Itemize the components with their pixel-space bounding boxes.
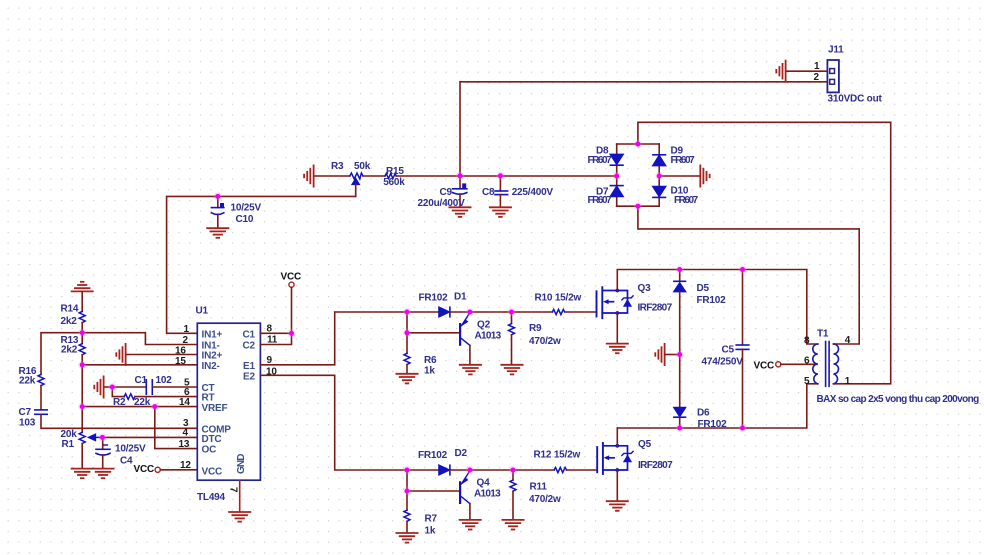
VCC circle above pin8	[289, 282, 294, 287]
wire VCC down to C1/C2 node	[291, 287, 293, 333]
svg-text:E1: E1	[243, 361, 255, 372]
svg-text:11: 11	[267, 334, 278, 345]
wire bridge top to T1 pin1 (right loop)	[638, 122, 891, 384]
ground under C10	[207, 228, 228, 238]
capacitor C9 220u/400V	[453, 176, 467, 207]
ground under C8	[490, 207, 511, 217]
svg-text:IN1+: IN1+	[202, 329, 223, 340]
node D6 bottom rail	[676, 424, 684, 432]
wire Q4 base row	[407, 490, 459, 492]
wire D2 cathode to node	[450, 469, 470, 471]
svg-text:Q3: Q3	[638, 283, 652, 294]
wire wiper row to IC pin4 DTC	[102, 436, 197, 438]
svg-text:IRF2807: IRF2807	[638, 303, 673, 314]
svg-text:Q5: Q5	[638, 439, 652, 450]
svg-text:FR102: FR102	[418, 450, 448, 461]
svg-text:8: 8	[804, 336, 810, 347]
wire R9 node to R10	[512, 311, 553, 313]
svg-text:474/250V: 474/250V	[702, 357, 744, 368]
svg-text:R14: R14	[61, 304, 79, 315]
wire VREF row	[82, 406, 197, 408]
svg-text:1k: 1k	[425, 526, 436, 537]
wire Q4 collector to ground	[469, 504, 471, 520]
wire R11 node to R12	[513, 469, 554, 471]
svg-text:FR102: FR102	[698, 419, 728, 430]
ground at IC pin16 (rotated)	[116, 344, 125, 365]
node VREF row mid	[151, 403, 159, 411]
wire Q5 drain to bottom rail	[616, 428, 618, 446]
ground under Q5	[607, 501, 628, 511]
svg-text:C2: C2	[243, 341, 256, 352]
wire ground to mid node	[665, 354, 679, 356]
ground under Q2	[460, 365, 481, 375]
wire D2 anode lead	[407, 469, 439, 471]
diode D2 FR102	[439, 465, 450, 475]
svg-text:C1: C1	[135, 375, 148, 386]
ground left of R3 (rotated)	[304, 165, 314, 186]
wire Q3 source to ground	[616, 313, 618, 343]
wire bridge right node to ground	[659, 175, 700, 177]
node C5 top rail	[739, 266, 747, 274]
wire Q3 drain to top rail / rail to T1 pin8	[617, 270, 818, 345]
node VREF row left	[78, 403, 86, 411]
node bridge top	[634, 140, 642, 148]
svg-text:IRF2807: IRF2807	[638, 460, 673, 471]
wire IC pin10 E2 to bottom driver row	[260, 375, 407, 470]
wire IC pin8 C1 to node	[260, 332, 291, 334]
wire ground to IC pin16	[126, 354, 197, 356]
svg-text:FR607: FR607	[588, 195, 613, 206]
svg-text:Q4: Q4	[477, 477, 491, 488]
ground under Q3	[607, 344, 628, 354]
wire D1 cathode to node	[450, 311, 470, 313]
node D5/D6 mid	[676, 351, 684, 359]
MOSFET Q3 IRF2807	[597, 287, 634, 318]
potentiometer R1 20k	[79, 432, 85, 443]
node bridge bottom	[634, 202, 642, 210]
svg-text:102: 102	[156, 375, 173, 386]
transistor Q4 A1013	[460, 471, 470, 504]
wire R13 bottom to IC pin15	[82, 364, 197, 366]
VCC circle at T1 pin6	[776, 362, 781, 367]
svg-text:560k: 560k	[383, 177, 405, 188]
svg-text:2: 2	[183, 335, 189, 346]
svg-text:22k: 22k	[134, 397, 151, 408]
MOSFET Q5 IRF2807	[597, 443, 633, 474]
capacitor C8 225/400V	[495, 176, 508, 207]
wire node to R9 node	[470, 311, 512, 313]
ground under C4	[92, 469, 113, 479]
resistor R11 470/2w chain	[512, 470, 514, 480]
wire R3 wiper down to C10 row	[355, 184, 357, 196]
svg-text:VCC: VCC	[281, 272, 302, 283]
svg-text:7: 7	[228, 487, 239, 493]
resistor R7 1k chain	[406, 470, 408, 510]
svg-text:D6: D6	[697, 408, 710, 419]
svg-text:9: 9	[267, 355, 273, 366]
svg-text:A1013: A1013	[474, 489, 501, 500]
wire R1 bottom to ground	[81, 444, 83, 469]
node bridge right mid	[655, 172, 663, 180]
capacitor C4 10/25V	[96, 437, 110, 468]
wire J11 pin1 to ground	[786, 70, 827, 72]
wire R1 top from VREF vertical	[81, 407, 83, 433]
diode D9 FR607	[653, 155, 666, 166]
svg-text:22k: 22k	[19, 375, 36, 386]
svg-text:2k2: 2k2	[61, 316, 78, 327]
svg-text:VREF: VREF	[202, 403, 228, 414]
wire VCC to T1 pin6	[781, 363, 817, 365]
resistor R9 470/2w chain	[511, 312, 513, 324]
svg-text:12: 12	[180, 460, 191, 471]
node R9 top	[508, 308, 516, 316]
resistor R16 22k	[38, 374, 44, 385]
svg-text:1: 1	[814, 61, 820, 72]
svg-text:FR607: FR607	[674, 195, 699, 206]
wire IC pin11 C2 to node	[260, 333, 291, 344]
svg-text:VCC: VCC	[202, 467, 223, 478]
svg-text:C8: C8	[482, 187, 495, 198]
wire VREF node down to OC pin13	[155, 407, 198, 449]
wire R12 to Q5 gate	[567, 469, 598, 471]
svg-text:R11: R11	[530, 482, 548, 493]
ground under R1	[72, 469, 93, 479]
node R7 / Q4 base tap	[403, 487, 411, 495]
svg-text:D2: D2	[455, 448, 468, 459]
wire node down to R2 row	[112, 387, 124, 397]
node R1 wiper / C4	[98, 433, 106, 441]
resistor R2 22k	[124, 394, 135, 400]
svg-text:IN2+: IN2+	[202, 351, 223, 362]
svg-text:1: 1	[845, 376, 851, 387]
node C9 tap on main row	[456, 172, 464, 180]
svg-text:FR607: FR607	[671, 155, 696, 166]
svg-text:U1: U1	[196, 306, 209, 317]
ground above R14 (inverted)	[72, 282, 93, 292]
bottom rail: Q5 drain to T1 pin5	[617, 384, 818, 428]
capacitor C7 103	[35, 410, 47, 414]
svg-text:J11: J11	[828, 45, 844, 56]
capacitor C10 10/25V	[211, 196, 224, 228]
ground under C9	[449, 207, 470, 217]
svg-text:R10 15/2w: R10 15/2w	[535, 293, 582, 304]
node R13 bottom / pin15	[78, 361, 86, 369]
wire ground to C1 node	[104, 386, 146, 388]
svg-text:8: 8	[267, 323, 273, 334]
resistor R12 15/2w	[554, 467, 566, 472]
wire VCC to IC pin12	[160, 469, 197, 471]
resistor R15 560k	[385, 174, 396, 179]
capacitor C5 474/250V	[742, 270, 744, 345]
svg-text:103: 103	[19, 418, 36, 429]
svg-text:310VDC out: 310VDC out	[828, 94, 883, 105]
ground under R11	[502, 520, 523, 530]
diode D6 FR102	[679, 355, 681, 408]
wire Q2 collector to ground	[469, 345, 471, 364]
svg-text:BAX so cap 2x5 vong thu cap 20: BAX so cap 2x5 vong thu cap 200vong	[817, 394, 980, 405]
wire R13 node staircase to IC pin2	[82, 333, 197, 345]
IC U1 TL494 body	[197, 323, 260, 480]
node R11 top	[509, 466, 517, 474]
svg-text:IN2-: IN2-	[202, 361, 220, 372]
potentiometer R3 50k	[350, 173, 363, 184]
svg-text:50k: 50k	[354, 161, 371, 172]
ground at D5/D6 mid node (rotated)	[655, 344, 664, 365]
diode D7 FR607	[610, 186, 623, 197]
wire R15 to bridge left node	[396, 175, 617, 177]
svg-text:10/25V: 10/25V	[115, 444, 146, 455]
diode D8 FR607	[610, 154, 623, 165]
svg-text:C7: C7	[19, 407, 32, 418]
svg-text:D5: D5	[697, 283, 710, 294]
svg-text:R15: R15	[386, 166, 404, 177]
wire Q2 base row	[407, 332, 459, 334]
resistor R14 2k2	[81, 291, 83, 311]
diode D1 FR102	[439, 307, 450, 317]
bridge rails and branch wires	[617, 144, 660, 206]
svg-text:C1: C1	[243, 329, 256, 340]
ground at J11 pin1 (rotated)	[776, 61, 785, 82]
svg-text:13: 13	[179, 439, 190, 450]
wire C10 row / down to IC pin1	[167, 196, 356, 333]
node C1/R2/ground junction	[108, 383, 116, 391]
svg-text:R9: R9	[529, 323, 542, 334]
node R14/R13 junction	[78, 329, 86, 337]
svg-text:R1: R1	[62, 439, 75, 450]
svg-text:10/25V: 10/25V	[231, 203, 262, 214]
wire R2 to IC pin6 RT	[135, 396, 197, 398]
svg-text:10: 10	[266, 366, 277, 377]
node bridge left mid	[613, 172, 621, 180]
node D1 anode / R6 top	[403, 308, 411, 316]
node C8 tap on main row	[496, 172, 504, 180]
svg-text:4: 4	[845, 335, 851, 346]
ground right of bridge (rotated)	[700, 165, 709, 186]
svg-text:DTC: DTC	[202, 434, 222, 445]
wire IC pin9 E1 to top driver row	[260, 312, 407, 365]
node D2 anode / R7 top	[403, 466, 411, 474]
svg-text:D1: D1	[454, 292, 467, 303]
svg-text:R7: R7	[425, 514, 438, 525]
node R6 / Q2 base tap	[403, 329, 411, 337]
node VCC C1/C2 tie	[288, 329, 296, 337]
svg-text:14: 14	[179, 397, 190, 408]
node D5 top rail	[676, 266, 684, 274]
svg-text:470/2w: 470/2w	[529, 494, 561, 505]
svg-text:R2: R2	[113, 397, 126, 408]
svg-text:C10: C10	[236, 214, 254, 225]
wire C7 bottom to COMP row	[41, 414, 197, 428]
ground under Q4	[460, 520, 481, 530]
wire node to R11 node	[470, 469, 513, 471]
ground under R9	[501, 365, 522, 375]
svg-text:C5: C5	[722, 345, 735, 356]
connector J11	[827, 60, 839, 92]
svg-text:FR607: FR607	[588, 155, 613, 166]
wire R3 to R15	[363, 175, 385, 177]
svg-text:1: 1	[184, 324, 190, 335]
ground under R6	[396, 374, 417, 384]
ground under R7	[396, 533, 417, 543]
svg-text:TL494: TL494	[197, 492, 226, 503]
capacitor C1 102	[146, 380, 152, 394]
ground at C1/R2 node (rotated)	[94, 376, 103, 397]
svg-text:15: 15	[175, 356, 186, 367]
svg-text:VCC: VCC	[754, 360, 775, 371]
wire J11 pin2 to C9 node	[460, 82, 827, 176]
svg-text:R6: R6	[424, 355, 437, 366]
svg-text:C9: C9	[440, 187, 453, 198]
node C10 tap on VCC row	[214, 192, 222, 200]
wire bridge bottom to T1 pin4	[638, 206, 859, 344]
svg-text:E2: E2	[243, 371, 255, 382]
svg-text:225/400V: 225/400V	[512, 187, 554, 198]
svg-text:1k: 1k	[424, 366, 435, 377]
svg-text:GND: GND	[236, 454, 247, 475]
svg-text:5: 5	[804, 376, 810, 387]
transformer T1	[813, 342, 839, 387]
svg-text:470/2w: 470/2w	[529, 336, 561, 347]
svg-text:6: 6	[804, 356, 810, 367]
svg-text:FR102: FR102	[697, 295, 727, 306]
node C5 bottom rail	[739, 424, 747, 432]
resistor R10 15/2w	[552, 309, 564, 314]
wire C1 to IC pin5 CT	[153, 386, 198, 388]
wire Q5 source to ground	[616, 470, 618, 501]
resistor R6 1k chain	[406, 312, 408, 353]
ground under IC pin7	[229, 512, 250, 522]
svg-text:C4: C4	[120, 456, 133, 467]
diode D10 FR607	[653, 187, 666, 198]
wire main mid row: ground to R3	[315, 175, 350, 177]
svg-text:Q2: Q2	[477, 319, 491, 330]
VCC circle at IC pin12	[155, 467, 160, 472]
wire IC pin7 GND to ground	[239, 480, 241, 512]
svg-text:2k2: 2k2	[61, 344, 78, 355]
svg-text:R3: R3	[331, 161, 344, 172]
svg-text:4: 4	[183, 428, 189, 439]
svg-text:T1: T1	[817, 329, 829, 340]
node D2 cathode / Q4 emitter	[466, 466, 474, 474]
svg-text:FR102: FR102	[419, 292, 449, 303]
wire R16 link	[41, 333, 82, 375]
svg-text:2: 2	[814, 72, 820, 83]
svg-text:R12 15/2w: R12 15/2w	[534, 449, 581, 460]
svg-text:VCC: VCC	[134, 464, 155, 475]
wire R10 to Q3 gate	[566, 311, 597, 313]
svg-text:OC: OC	[202, 445, 217, 456]
svg-text:220u/400V: 220u/400V	[418, 198, 466, 209]
wire R13 bottom down to VREF row	[81, 365, 83, 407]
node D1 cathode / Q2 emitter	[466, 308, 474, 316]
svg-text:A1013: A1013	[475, 331, 502, 342]
wire D1 anode lead	[407, 311, 439, 313]
diode D5 FR102	[679, 270, 681, 282]
transistor Q2 A1013	[460, 313, 470, 346]
resistor R13 2k2	[81, 333, 83, 344]
